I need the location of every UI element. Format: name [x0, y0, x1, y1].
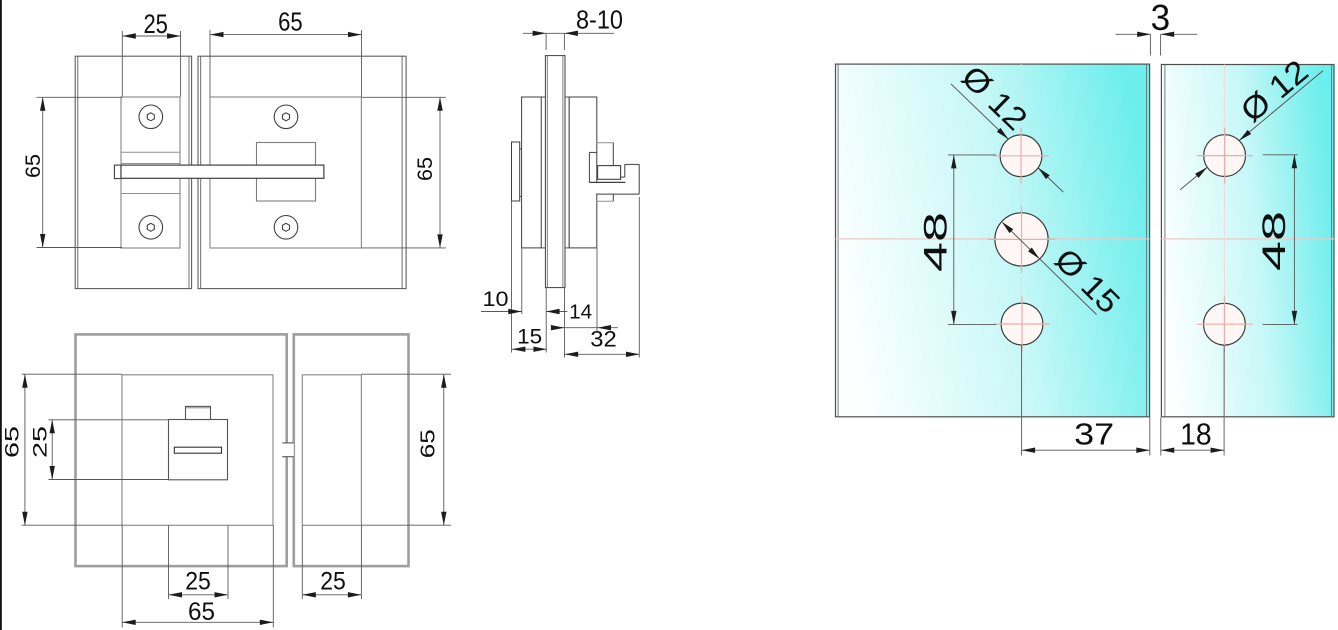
screw bottom-left — [139, 216, 163, 240]
dimension 65 bottom-right vertical — [361, 374, 451, 525]
bottom view fitting square left — [122, 375, 273, 526]
image left border — [0, 0, 2, 630]
side view right plate — [569, 97, 597, 248]
svg-text:18: 18 — [1180, 417, 1212, 452]
hole bottom left panel (d12) — [994, 296, 1050, 352]
svg-text:65: 65 — [414, 157, 437, 181]
hole bottom right panel (d12) — [1197, 296, 1253, 352]
svg-text:65: 65 — [22, 154, 45, 178]
svg-text:48: 48 — [1256, 211, 1292, 271]
diameter label d12 right panel — [1195, 53, 1315, 178]
dimension 15 — [512, 326, 547, 352]
centerline vertical right panel — [1223, 65, 1225, 417]
side view left plate — [522, 97, 542, 248]
bottom view glass panel right — [294, 334, 409, 566]
svg-text:65: 65 — [188, 598, 215, 626]
dimension 25 bottom horizontal left — [169, 525, 229, 599]
diameter leader line d12 right (under hole) — [1180, 71, 1323, 190]
svg-text:25: 25 — [185, 568, 211, 596]
hole top left panel (d12) — [993, 128, 1049, 184]
bottom view fitting rect right — [302, 375, 361, 526]
svg-text:32: 32 — [590, 327, 617, 352]
dimension 65 top — [210, 7, 362, 97]
svg-text:14: 14 — [569, 301, 592, 323]
centerline vertical left panel — [1020, 64, 1022, 417]
svg-text:65: 65 — [278, 7, 303, 37]
glass panel right, front view — [198, 56, 406, 288]
centerline horizontal left panel — [836, 238, 1150, 240]
side view glass strip — [545, 56, 565, 288]
svg-text:3: 3 — [1151, 0, 1171, 38]
cyan glass panel left — [836, 64, 1150, 417]
dimension 10 — [481, 288, 567, 314]
diameter label d15 — [1002, 222, 1127, 321]
side view housing bottom box — [596, 194, 613, 201]
dimension 65 right vertical — [362, 97, 447, 248]
side view latch housing — [589, 143, 625, 183]
svg-text:10: 10 — [483, 288, 509, 311]
bottom view lock block — [169, 420, 228, 480]
screw top-left — [139, 105, 163, 129]
side view left gasket — [541, 97, 545, 248]
svg-text:65: 65 — [3, 426, 24, 458]
bottom view tab — [186, 406, 211, 419]
glass panel left, front view — [75, 56, 191, 288]
diameter leader line d12 left (under hole) — [951, 84, 1063, 192]
dimension 18 — [1161, 345, 1224, 456]
dimension 48 left — [918, 155, 997, 325]
svg-text:25: 25 — [143, 9, 168, 39]
keeper arm white patch — [596, 183, 599, 193]
dimension 37 — [1022, 345, 1150, 456]
dimension 25 bottom horizontal right — [302, 525, 361, 599]
svg-text:65: 65 — [418, 429, 440, 458]
diameter label d12 left panel — [955, 59, 1050, 180]
screw bottom-right — [274, 216, 298, 240]
dimension 65 left vertical — [22, 97, 122, 247]
latch bar — [121, 165, 324, 178]
extension lines side view bottom — [512, 197, 640, 358]
dimension 25 bottom-left vertical — [30, 420, 168, 480]
lock fitting plate right (65mm) — [210, 97, 361, 248]
side view thumbturn knob — [512, 142, 522, 201]
svg-text:15: 15 — [517, 326, 542, 349]
thumbturn block — [257, 143, 316, 202]
dimension 3 gap — [1116, 0, 1197, 56]
dimension 48 right — [1256, 155, 1298, 325]
svg-text:8-10: 8-10 — [576, 5, 623, 35]
dimension 65 bottom-left vertical — [3, 374, 123, 525]
side view latch bolt — [598, 166, 621, 180]
svg-text:48: 48 — [918, 212, 954, 272]
dimension 14 — [551, 301, 618, 330]
svg-text:37: 37 — [1074, 417, 1114, 452]
svg-text:25: 25 — [30, 426, 51, 458]
svg-text:25: 25 — [320, 568, 346, 596]
hole middle left panel (d15) — [988, 206, 1055, 273]
dimension 8-10 — [523, 5, 623, 50]
cyan glass panel right — [1161, 65, 1334, 417]
bottom view slot — [174, 447, 221, 453]
dimension 65 bottom horizontal — [122, 525, 273, 627]
centerline horizontal right panel — [1161, 238, 1334, 240]
bottom view latch bridge — [282, 443, 294, 458]
dimension 32 — [565, 327, 640, 358]
lock fitting plate left (25mm) — [121, 97, 180, 248]
side view right gasket — [565, 97, 569, 248]
bottom view glass panel left — [76, 334, 287, 566]
dimension 25 top — [122, 9, 180, 97]
latch tab — [114, 165, 121, 179]
screw top-right — [274, 105, 298, 129]
side view keeper hook — [596, 164, 639, 194]
hole top right panel (d12) — [1197, 128, 1253, 184]
